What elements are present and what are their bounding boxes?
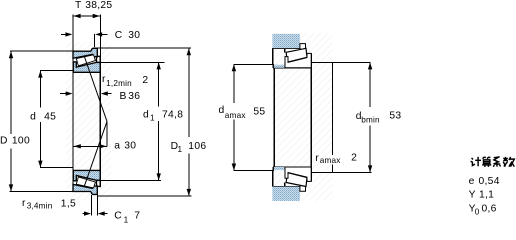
- svg-text:C: C: [114, 211, 122, 222]
- svg-text:7: 7: [134, 211, 140, 222]
- svg-text:1,1: 1,1: [479, 190, 494, 201]
- svg-text:1: 1: [178, 145, 183, 154]
- svg-text:amax: amax: [225, 111, 246, 120]
- svg-text:1: 1: [124, 215, 129, 223]
- svg-text:30: 30: [128, 30, 140, 41]
- svg-text:2: 2: [351, 152, 357, 163]
- svg-text:53: 53: [389, 111, 401, 122]
- svg-text:55: 55: [253, 106, 265, 117]
- svg-text:D: D: [0, 136, 8, 147]
- svg-text:0,6: 0,6: [482, 203, 497, 214]
- svg-text:B: B: [120, 91, 127, 102]
- svg-text:36: 36: [128, 91, 140, 102]
- svg-text:0,54: 0,54: [479, 176, 500, 187]
- svg-text:C: C: [115, 30, 123, 41]
- svg-text:100: 100: [12, 136, 30, 147]
- svg-text:1,5: 1,5: [61, 198, 76, 209]
- svg-text:d: d: [143, 110, 149, 121]
- svg-text:1: 1: [150, 114, 155, 123]
- svg-text:e: e: [469, 176, 475, 187]
- svg-text:0: 0: [475, 207, 480, 216]
- svg-text:r: r: [22, 198, 26, 209]
- svg-text:bmin: bmin: [361, 116, 380, 125]
- svg-text:Y: Y: [469, 190, 476, 201]
- svg-text:38,25: 38,25: [85, 0, 112, 11]
- svg-text:a: a: [114, 141, 120, 152]
- svg-text:T: T: [75, 0, 82, 11]
- svg-text:106: 106: [188, 141, 206, 152]
- svg-text:30: 30: [124, 141, 136, 152]
- svg-text:r: r: [315, 153, 319, 164]
- svg-text:d: d: [219, 105, 225, 116]
- svg-text:amax: amax: [320, 156, 341, 165]
- svg-text:d: d: [30, 111, 36, 122]
- svg-text:1,2min: 1,2min: [106, 79, 132, 88]
- svg-text:3,4min: 3,4min: [27, 202, 53, 211]
- svg-text:45: 45: [44, 111, 56, 122]
- svg-text:74,8: 74,8: [162, 110, 183, 121]
- svg-text:2: 2: [142, 75, 148, 86]
